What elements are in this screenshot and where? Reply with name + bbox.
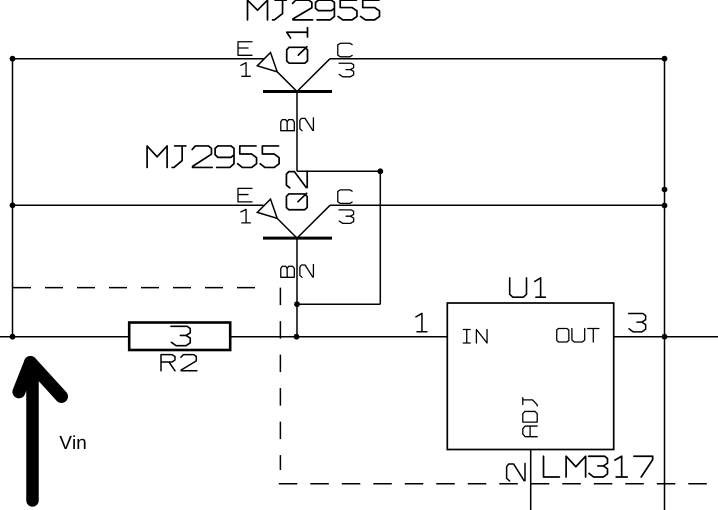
Vin arrow shaft (26, 365, 39, 500)
dashed boundary vertical segment (279, 288, 281, 470)
label R2 refdes (161, 355, 197, 371)
Q1 base bar (263, 90, 332, 93)
label Q2 value MJ2955 (147, 146, 279, 168)
label Q2 refdes (rotated) (286, 171, 307, 210)
wire Q1 collector to right rail (330, 58, 665, 60)
wire Q1 base down (296, 92, 298, 172)
junction left rail / Q2 emitter (10, 202, 16, 208)
Vin arrow left barb (19, 363, 31, 392)
wire top rail left segment (Q1 emitter net) (13, 58, 264, 60)
junction right rail / Q2 collector (662, 203, 668, 209)
pin label U1 IN (463, 329, 487, 343)
wire Q1 base route down (379, 171, 381, 304)
pin label Q1 B (rotated) (281, 120, 295, 131)
pin number Q2 2 (rotated) (300, 265, 314, 278)
pin label Q1 C (338, 43, 352, 57)
Q2 base bar (263, 237, 332, 240)
label Q1 refdes (rotated) (287, 28, 308, 64)
transistor Q2 MJ2955 symbol (257, 199, 332, 238)
label Vin (59, 435, 85, 449)
resistor R2 body (129, 323, 230, 351)
pin number U1 1 (416, 313, 427, 331)
junction right rail upper (662, 187, 668, 193)
wire Q1 base route left to Q2 base (297, 303, 380, 305)
junction base route corner (377, 168, 383, 174)
pin number Q2 1 (241, 209, 251, 223)
pin label U1 OUT (557, 328, 599, 342)
pin label U1 ADJ (rotated) (523, 398, 537, 437)
Q2 emitter lead (277, 218, 297, 238)
wire Q2 base down to main net (296, 238, 298, 337)
label R2 value 3 (171, 326, 190, 345)
wire left rail vertical (12, 59, 14, 337)
wire U1 OUT to right (614, 336, 718, 338)
wire Q1 base route right (297, 170, 380, 172)
dashed boundary top segment (13, 287, 264, 289)
Q2 emitter arrow (257, 199, 277, 218)
Q1 emitter arrow (257, 53, 277, 72)
wire U1 ADJ pin down (530, 450, 532, 510)
pin number Q1 1 (241, 63, 251, 77)
Q2 collector lead (297, 205, 330, 238)
wire Q2 emitter to left rail (13, 204, 264, 206)
label U1 refdes (510, 278, 546, 297)
junction left rail / main net (10, 334, 16, 340)
junction top-left (10, 56, 16, 62)
pin number U1 2 (rotated) (507, 463, 525, 481)
junction top-right (662, 56, 668, 62)
wire right rail vertical (664, 59, 666, 510)
pin number U1 3 (629, 314, 646, 332)
pin label Q1 E (238, 42, 252, 56)
junction Q1 base route / Q2 base (294, 301, 300, 307)
wire Q2 collector to right rail (330, 204, 665, 206)
pin number Q1 3 (339, 63, 354, 77)
pin number Q2 3 (339, 210, 354, 224)
pin label Q2 C (338, 190, 352, 204)
wire main net to U1 IN (0, 336, 447, 338)
Vin arrow annotation (19, 363, 62, 501)
pin label Q2 B (rotated) (281, 266, 295, 277)
pin label Q2 E (238, 188, 252, 202)
label Q1 value MJ2955 (248, 0, 380, 20)
Q1 emitter lead (277, 72, 297, 92)
op-amp/regulator U1 LM317 body (447, 303, 613, 450)
junction Q2 base / main net (294, 334, 300, 340)
transistor Q1 MJ2955 symbol (257, 53, 332, 92)
Vin arrow right barb (31, 363, 62, 397)
pin number Q1 2 (rotated) (300, 118, 314, 131)
Q1 collector lead (297, 59, 330, 92)
junction right rail / output net (662, 334, 668, 340)
dashed boundary bottom segment (279, 483, 718, 485)
label U1 value LM317 (544, 456, 653, 477)
